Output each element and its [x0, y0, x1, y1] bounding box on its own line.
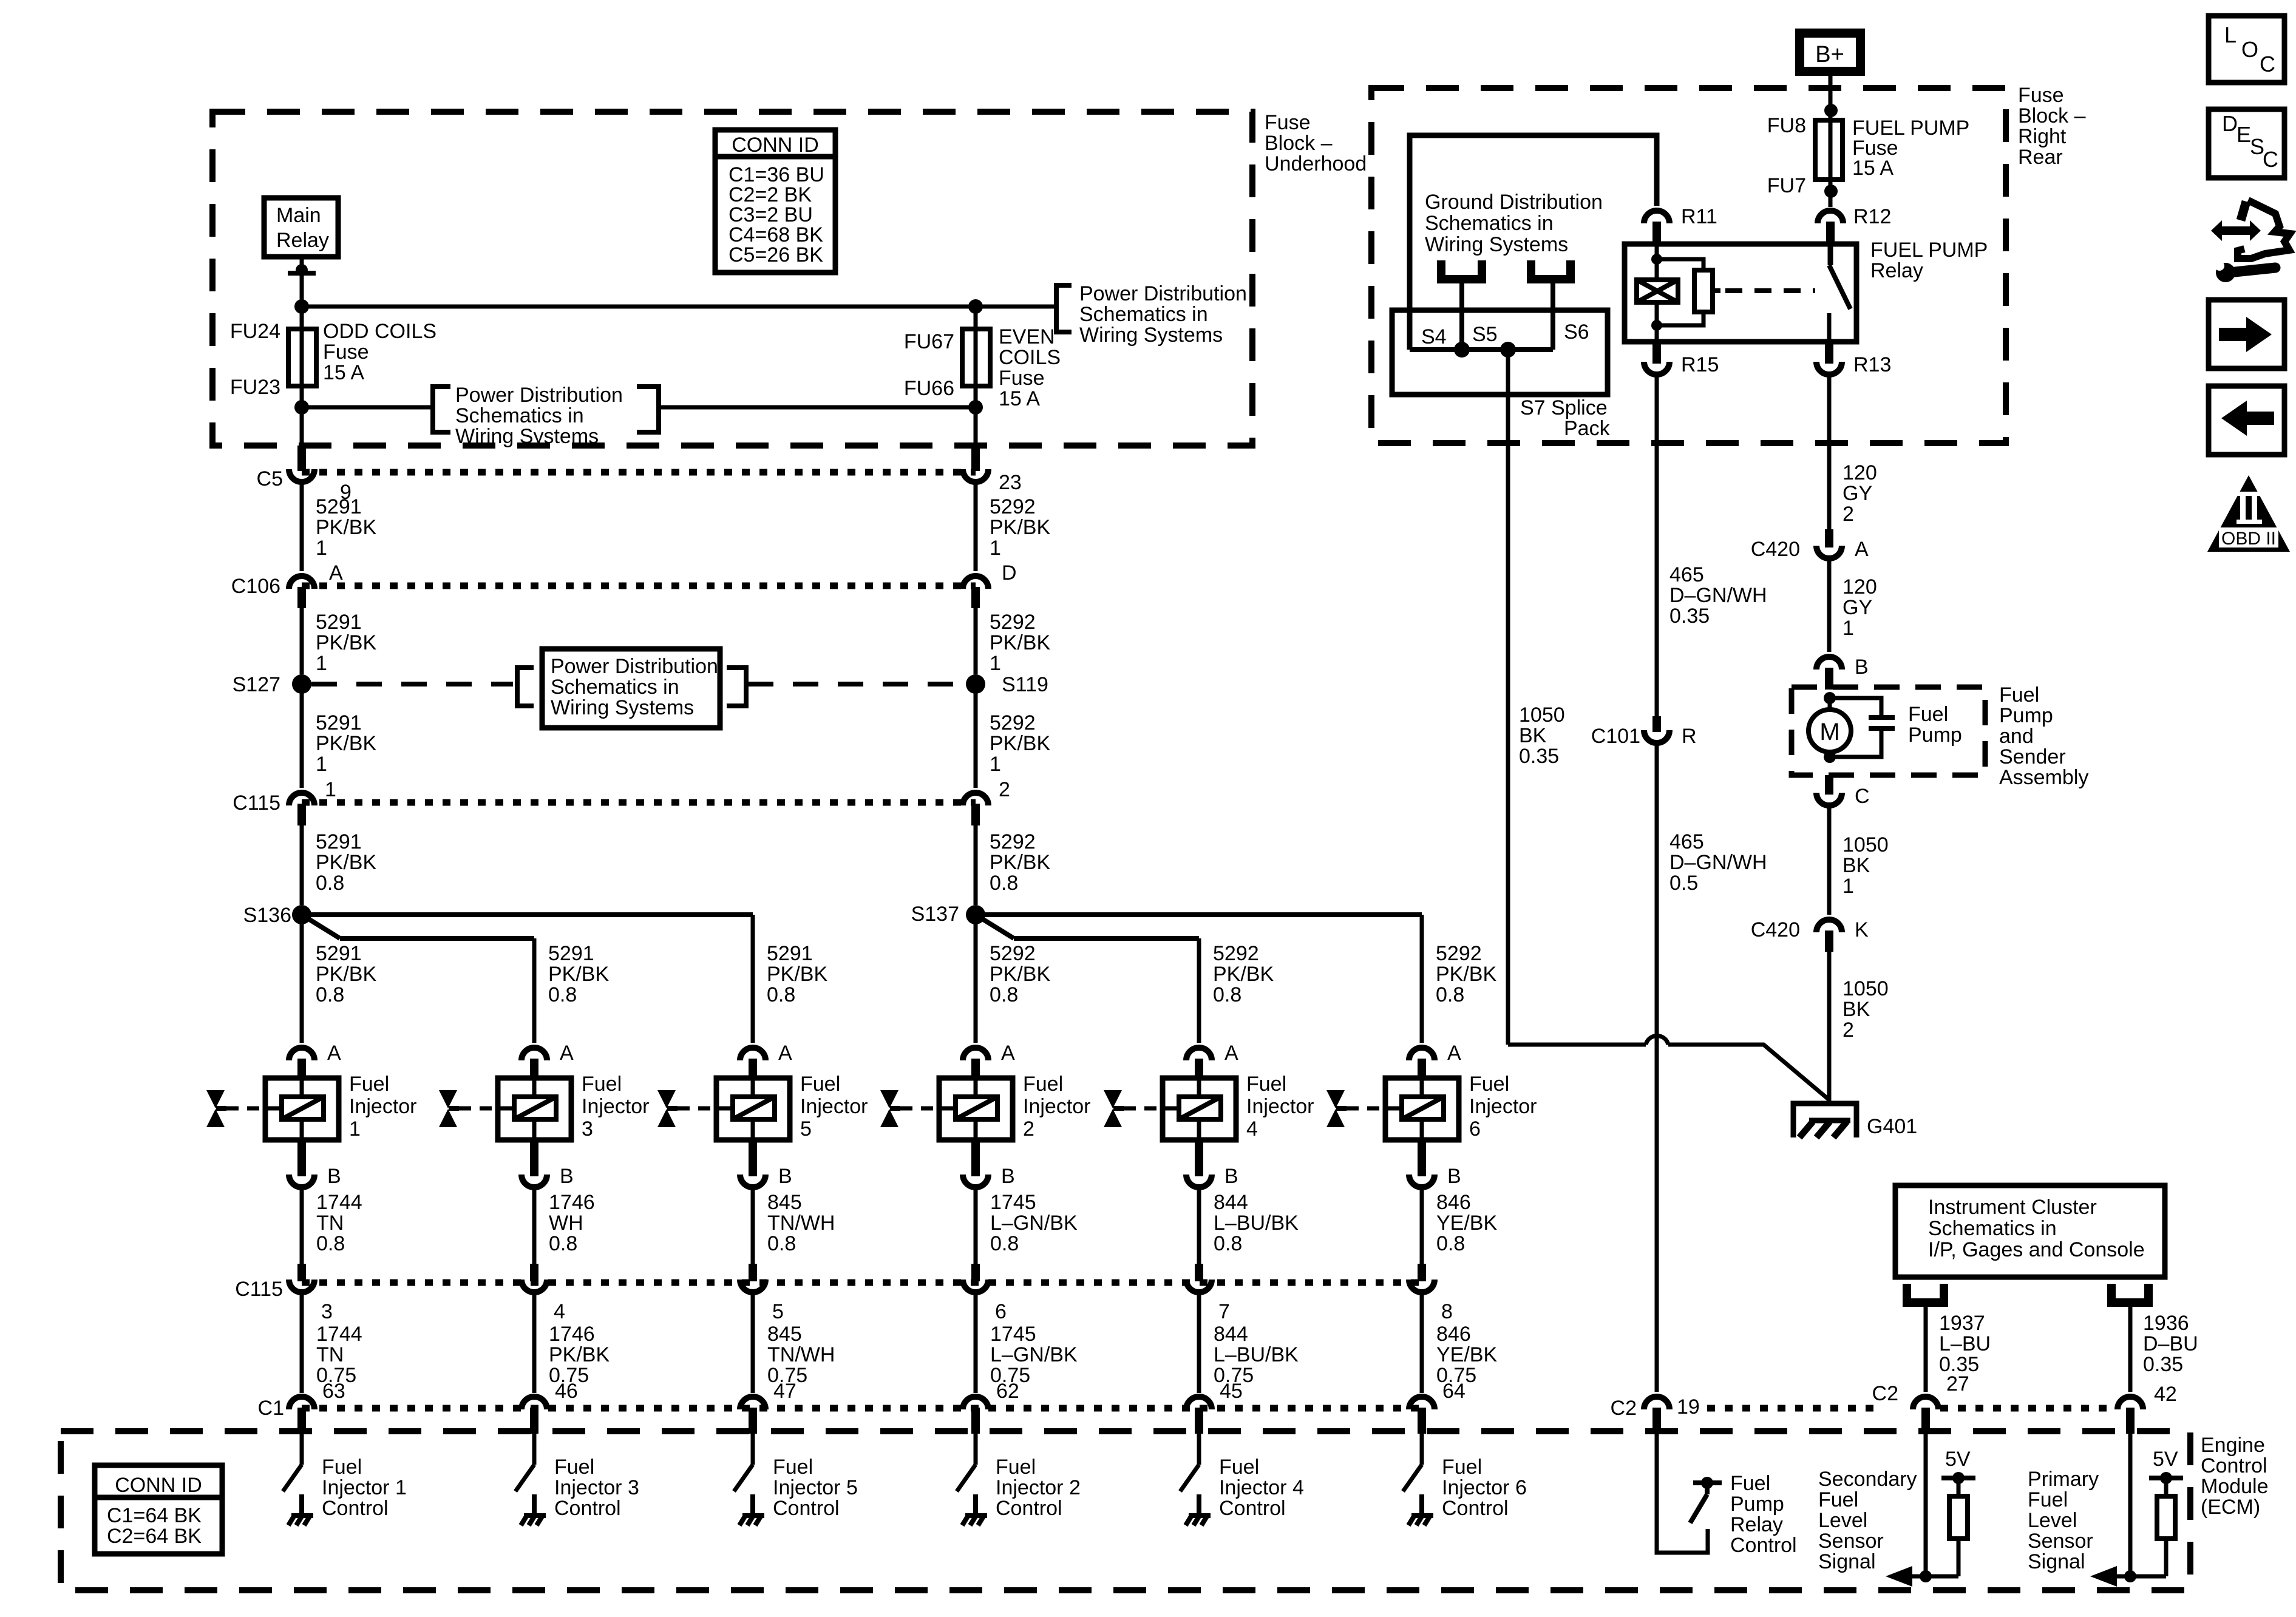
ground distribution box: [1410, 135, 1657, 350]
svg-text:62: 62: [996, 1380, 1019, 1403]
svg-text:3: 3: [321, 1300, 333, 1323]
fuse block right rear (dashed box): [1371, 88, 2006, 443]
dashed wire callout to S119: [748, 682, 966, 686]
svg-text:FU67: FU67: [904, 330, 954, 353]
connector C115 pin 7: [1195, 1264, 1203, 1281]
connector C115 pin 2: [963, 793, 988, 805]
svg-text:R12: R12: [1853, 205, 1891, 228]
svg-text:L: L: [2224, 22, 2237, 47]
svg-text:K: K: [1855, 918, 1869, 941]
svg-text:CONN ID: CONN ID: [732, 134, 819, 157]
pull-up resistor (secondary): [1949, 1496, 1968, 1539]
connector C1 pin 63: [289, 1397, 314, 1409]
splice S127: [292, 674, 311, 694]
svg-text:C1=64 BKC2=64 BK: C1=64 BKC2=64 BK: [107, 1504, 202, 1548]
callout bracket left (S127): [517, 668, 534, 706]
svg-text:S127: S127: [233, 673, 280, 696]
svg-text:C420: C420: [1751, 538, 1800, 561]
connector C420 pin K: [1816, 920, 1842, 932]
svg-text:63: 63: [322, 1380, 345, 1403]
svg-text:C5: C5: [257, 467, 283, 490]
wire R13 down (120 GY 2): [1827, 372, 1832, 529]
svg-text:C1: C1: [258, 1397, 284, 1420]
connector C2 row dotted line (19 to 27): [1707, 1405, 1873, 1412]
primary fuel level sensor signal wire: [2128, 1434, 2133, 1576]
svg-text:B: B: [1001, 1165, 1015, 1188]
wire label 5291 PK/BK 1 (C106 to S127): [300, 608, 304, 674]
connector C115 pin 4: [530, 1264, 538, 1281]
svg-text:B: B: [1855, 656, 1869, 679]
svg-text:S4: S4: [1421, 325, 1447, 348]
valve symbol injector 1: [206, 1090, 225, 1108]
connector C1 row dotted line: [302, 1405, 1422, 1412]
relay actuator dashed line: [1725, 288, 1815, 293]
wire label 844 L–BU/BK 0.8 (injector 4 to C115): [1197, 1185, 1201, 1264]
svg-text:FU7: FU7: [1767, 174, 1806, 197]
node S7 junction: [1500, 342, 1516, 358]
svg-text:S119: S119: [1002, 673, 1048, 696]
svg-text:C2: C2: [1872, 1382, 1898, 1405]
ECM driver switch fuel injector 2 control: [974, 1434, 978, 1465]
svg-text:B: B: [1224, 1165, 1238, 1188]
instrument cluster bracket (1936): [2111, 1284, 2148, 1303]
fuel pump motor M: [1824, 692, 1836, 704]
wire label 846 YE/BK 0.75 (C115 to ECM pin 64): [1420, 1290, 1424, 1393]
connector R13: [1825, 342, 1833, 364]
svg-text:FU23: FU23: [230, 376, 280, 399]
splice S136: [292, 905, 311, 924]
svg-text:5V: 5V: [1945, 1448, 1971, 1471]
ECM driver switch fuel injector 6 control: [1420, 1434, 1424, 1465]
wire FU23 junction down to C5: [300, 407, 304, 446]
svg-text:R11: R11: [1681, 205, 1717, 228]
connector C101 pin R: [1652, 716, 1661, 732]
pull-up resistor (primary): [2157, 1496, 2175, 1539]
svg-text:FU24: FU24: [230, 320, 280, 343]
wire label 1745 L–GN/BK 0.8 (injector 2 to C115): [974, 1185, 978, 1264]
connector R11: [1644, 211, 1669, 223]
connector C2 row dotted line (27 to 42): [1940, 1405, 2116, 1412]
svg-text:23: 23: [999, 471, 1022, 494]
valve symbol injector 3: [439, 1090, 457, 1108]
svg-text:A: A: [327, 1042, 341, 1065]
fuse FU24/FU23 ODD COILS: [300, 307, 304, 329]
connector injector 4 pin B: [1195, 1140, 1203, 1176]
callout bracket left (mid): [433, 387, 450, 432]
svg-text:1: 1: [325, 778, 336, 801]
connector C420 pin A: [1825, 529, 1833, 547]
svg-text:E: E: [2237, 122, 2251, 147]
signal arrow (secondary): [1911, 1575, 1958, 1579]
connector C2 pin 19: [1644, 1397, 1669, 1409]
engine control module (dashed box): [61, 1431, 2190, 1590]
icon LOC box: [2209, 16, 2284, 83]
valve symbol injector 4: [1104, 1090, 1122, 1108]
ground (ECM internal, injector 3): [532, 1494, 537, 1516]
svg-text:B: B: [778, 1165, 792, 1188]
svg-text:R15: R15: [1681, 353, 1719, 376]
splice pack box S4/S5/S6: [1392, 310, 1608, 395]
svg-text:C115: C115: [233, 792, 280, 815]
main relay box: [264, 198, 338, 257]
connector C2 pin 42: [2118, 1397, 2143, 1409]
CONN ID table (ECM): [95, 1465, 222, 1554]
node junction bus to FU24: [294, 299, 309, 314]
connector R15: [1652, 342, 1661, 364]
svg-text:S6: S6: [1564, 320, 1589, 344]
connector C106 row dotted line: [302, 583, 976, 589]
fuel injector 3: [498, 1078, 571, 1140]
svg-text:2: 2: [999, 778, 1010, 801]
svg-text:C101: C101: [1591, 725, 1640, 748]
connector injector 3 pin A: [521, 1048, 547, 1060]
svg-text:27: 27: [1946, 1372, 1969, 1395]
wire S136 down to injector 1: [300, 915, 304, 1043]
svg-text:FU8: FU8: [1767, 114, 1806, 137]
connector C1 pin 46: [521, 1397, 547, 1409]
wire label 5291 PK/BK 1 (C5 to C106): [300, 480, 304, 571]
instrument cluster bracket (1937): [1907, 1284, 1944, 1303]
connector injector 5 pin A: [740, 1048, 766, 1060]
wire label 1745 L–GN/BK 0.75 (C115 to ECM pin 62): [974, 1290, 978, 1393]
ground G401: [1793, 1103, 1856, 1137]
connector R12: [1818, 211, 1843, 223]
wire label 5292 PK/BK 1 (23 to D): [974, 480, 978, 571]
callout bracket power distribution (top): [1056, 285, 1072, 332]
ECM driver switch fuel injector 3 control: [532, 1434, 537, 1465]
svg-text:Pack: Pack: [1564, 417, 1611, 440]
connector C115 pin 3: [297, 1264, 306, 1281]
valve symbol injector 5: [657, 1090, 676, 1108]
ground (ECM internal, injector 6): [1419, 1494, 1424, 1516]
wire label 1937 L-BU 0.35: [1924, 1303, 1928, 1392]
svg-text:45: 45: [1220, 1380, 1243, 1403]
svg-text:C: C: [1855, 785, 1870, 808]
wire S7 splice to G401 (1050 BK 0.35): [1506, 350, 1510, 1045]
ground distribution bracket S6: [1531, 260, 1571, 279]
connector C115 pin 6: [971, 1264, 980, 1281]
wire FU23 to callout: [294, 400, 309, 415]
svg-text:19: 19: [1677, 1395, 1700, 1419]
fuel injector 5: [716, 1078, 790, 1140]
wire label 465 D-GN/WH 0.5 (C101 to ECM 19): [1655, 741, 1659, 1392]
fuel injector 2: [939, 1078, 1013, 1140]
wire label 5292 PK/BK 1 (D to S119): [974, 608, 978, 674]
relay resistor: [1662, 259, 1703, 270]
connector injector 4 pin A: [1186, 1048, 1212, 1060]
wire label 5291 PK/BK 1 (S127 to C115): [300, 684, 304, 788]
fuel injector 1: [265, 1078, 339, 1140]
fuse FU8/FU7 FUEL PUMP: [1815, 120, 1843, 180]
svg-text:A: A: [1224, 1042, 1238, 1065]
svg-text:C2: C2: [1611, 1397, 1637, 1420]
splice pack rail: [1410, 347, 1553, 352]
svg-text:5V: 5V: [2153, 1448, 2178, 1471]
fuel injector 4: [1163, 1078, 1236, 1140]
svg-text:D: D: [2222, 111, 2238, 136]
connector injector 6 pin A: [1409, 1048, 1435, 1060]
connector C115 row dotted line: [302, 799, 976, 806]
connector injector 6 pin B: [1418, 1140, 1426, 1176]
ECM switch fuel pump relay control: [1657, 1434, 1708, 1553]
svg-text:A: A: [778, 1042, 792, 1065]
svg-text:C420: C420: [1751, 918, 1800, 941]
fuel injector 6: [1385, 1078, 1459, 1140]
CONN ID table (underhood): [715, 130, 835, 273]
connector injector 3 pin B: [530, 1140, 538, 1176]
wire bus main relay to FU67: [302, 305, 1056, 309]
fuel pump relay box: [1625, 244, 1856, 342]
svg-text:7: 7: [1218, 1300, 1230, 1323]
wire label 1744 TN 0.8 (injector 1 to C115): [300, 1185, 304, 1264]
wire main relay output: [300, 257, 304, 303]
svg-text:CONN ID: CONN ID: [115, 1474, 202, 1497]
wire B+ down to FU8: [1829, 76, 1833, 120]
connector injector 2 pin B: [971, 1140, 980, 1176]
fuel pump and sender assembly (dashed box): [1792, 687, 1985, 775]
icon forward arrow box: [2209, 300, 2284, 368]
node junction bus to FU67: [968, 299, 983, 314]
connector injector 2 pin A: [963, 1048, 988, 1060]
ground (ECM internal, injector 2): [973, 1494, 978, 1516]
signal arrow (primary): [2116, 1575, 2166, 1579]
fuel pump capacitor: [1869, 715, 1895, 720]
svg-text:42: 42: [2154, 1383, 2177, 1406]
wire label 844 L–BU/BK 0.75 (C115 to ECM pin 45): [1197, 1290, 1201, 1393]
connector C1 pin 64: [1409, 1397, 1435, 1409]
svg-text:C: C: [2260, 52, 2275, 76]
wire S137 branch to injector 6: [976, 912, 1422, 917]
wire S136 branch to injector 3: [302, 915, 340, 938]
svg-text:G401: G401: [1867, 1115, 1917, 1138]
callout box Power Distribution Schematics in Wiring Systems: [542, 649, 720, 728]
wire label 1050 BK 1 (C to C420 K): [1827, 803, 1832, 915]
ground (ECM internal, injector 1): [299, 1494, 304, 1516]
connector C1 pin 45: [1186, 1397, 1212, 1409]
icon two-way arrow with wrench: [2211, 220, 2261, 241]
svg-text:D: D: [1002, 561, 1017, 585]
node main relay terminal: [296, 264, 308, 276]
icon back arrow box: [2209, 386, 2284, 455]
node S5 junction: [1454, 342, 1470, 358]
ground (ECM internal, injector 5): [750, 1494, 755, 1516]
svg-text:B: B: [1447, 1165, 1461, 1188]
relay coil: [1655, 244, 1659, 280]
connector C106 pin D: [963, 576, 988, 589]
svg-text:C106: C106: [231, 575, 280, 598]
svg-text:C: C: [2263, 147, 2278, 172]
svg-text:8: 8: [1441, 1300, 1453, 1323]
wire S137 branch to injector 4: [976, 915, 1014, 938]
ECM driver switch fuel injector 5 control: [751, 1434, 755, 1465]
relay switch: [1828, 245, 1833, 265]
ground distribution bracket S5: [1441, 260, 1482, 279]
svg-text:A: A: [560, 1042, 574, 1065]
wire label 5292 PK/BK 1 (S119 to 2): [974, 684, 978, 788]
callout bracket right (S119): [727, 668, 746, 706]
wire label 845 TN/WH 0.8 (injector 5 to C115): [751, 1185, 755, 1264]
wire label 1050 BK 2 (C420 K to G401): [1827, 952, 1832, 1103]
callout bracket right (mid): [637, 387, 659, 432]
splice S119: [966, 674, 985, 694]
fuse block underhood (dashed box): [212, 112, 1252, 446]
valve symbol injector 2: [880, 1090, 898, 1108]
svg-text:A: A: [329, 561, 343, 585]
node B+ junction: [1824, 104, 1838, 117]
ECM driver switch fuel injector 4 control: [1197, 1434, 1201, 1465]
svg-text:6: 6: [995, 1300, 1007, 1323]
fuse FU67/FU66 EVEN COILS: [974, 307, 978, 329]
connector C115 pin 5: [749, 1264, 757, 1281]
splice S137: [966, 905, 985, 924]
svg-text:A: A: [1855, 538, 1869, 561]
connector C106 pin A: [289, 576, 314, 589]
svg-text:OBD II: OBD II: [2221, 529, 2276, 549]
connector injector 1 pin A: [289, 1048, 314, 1060]
svg-text:64: 64: [1442, 1380, 1466, 1403]
connector C2 pin 27: [1913, 1397, 1938, 1409]
svg-text:B: B: [327, 1165, 341, 1188]
wire label 5292 PK/BK 0.8 (2 to S137): [974, 825, 978, 905]
wire label 5291 PK/BK 0.8 (C115 to S136): [300, 825, 304, 905]
connector C5 row dotted line: [302, 469, 976, 476]
icon OBD II triangle: [2207, 475, 2290, 552]
svg-text:R13: R13: [1853, 353, 1891, 376]
connector C5 pin 9: [297, 446, 306, 471]
svg-text:C115: C115: [235, 1278, 283, 1301]
connector fuel pump pin B: [1816, 657, 1842, 670]
svg-text:EngineControlModule(ECM): EngineControlModule(ECM): [2201, 1434, 2269, 1519]
ground (ECM internal, injector 4): [1197, 1494, 1201, 1516]
svg-text:M: M: [1819, 719, 1839, 745]
connector C5 pin 23: [971, 446, 980, 471]
connector injector 1 pin B: [297, 1140, 306, 1176]
wire S136 branch to injector 5: [302, 912, 753, 917]
wire S137 down to injector 2: [974, 915, 978, 1043]
svg-text:S136: S136: [243, 904, 291, 927]
wire hop over C101 wire: [1646, 1036, 1668, 1045]
wire label 1936 D-BU 0.35: [2128, 1303, 2133, 1392]
dashed wire S127 to callout: [311, 682, 513, 686]
svg-text:4: 4: [554, 1300, 565, 1323]
connector injector 5 pin B: [749, 1140, 757, 1176]
valve symbol injector 6: [1326, 1090, 1345, 1108]
svg-text:O: O: [2241, 37, 2258, 62]
connector C115 pin 8: [1418, 1264, 1426, 1281]
svg-text:A: A: [1447, 1042, 1461, 1065]
connector fuel pump pin C: [1825, 775, 1833, 795]
svg-text:B: B: [560, 1165, 574, 1188]
svg-text:S7 Splice: S7 Splice: [1520, 396, 1608, 419]
svg-text:R: R: [1682, 725, 1697, 748]
connector C1 pin 62: [963, 1397, 988, 1409]
wire FU7 to R12: [1829, 180, 1833, 207]
wire callout to FU66 junction: [660, 405, 976, 410]
svg-text:S5: S5: [1472, 323, 1498, 346]
svg-text:5: 5: [772, 1300, 784, 1323]
wire label 1744 TN 0.75 (C115 to ECM pin 63): [300, 1290, 304, 1393]
svg-text:S137: S137: [911, 903, 959, 926]
connector C115 pin 1: [289, 793, 314, 805]
wire label 846 YE/BK 0.8 (injector 6 to C115): [1420, 1185, 1424, 1264]
svg-text:B+: B+: [1815, 42, 1844, 67]
battery feed B+: [1795, 29, 1865, 76]
wire label 845 TN/WH 0.75 (C115 to ECM pin 47): [751, 1290, 755, 1393]
svg-text:47: 47: [773, 1380, 796, 1403]
wire label 1746 WH 0.8 (injector 3 to C115): [532, 1185, 537, 1264]
wire R15 down (465 D-GN/WH 0.35): [1655, 372, 1659, 716]
wire label 1746 PK/BK 0.75 (C115 to ECM pin 46): [532, 1290, 537, 1393]
svg-text:FU66: FU66: [904, 377, 954, 400]
svg-text:A: A: [1001, 1042, 1015, 1065]
secondary fuel level sensor signal wire: [1924, 1434, 1928, 1576]
wire label 120 GY 1 (C420 to fuel pump B): [1827, 556, 1832, 652]
ECM driver switch fuel injector 1 control: [300, 1434, 304, 1465]
svg-text:C1=36 BUC2=2 BKC3=2 BUC4=68 BK: C1=36 BUC2=2 BKC3=2 BUC4=68 BKC5=26 BK: [729, 163, 824, 266]
connector C1 pin 47: [740, 1397, 766, 1409]
icon DESC box: [2209, 109, 2284, 178]
instrument cluster box: [1895, 1185, 2165, 1277]
svg-text:46: 46: [555, 1380, 578, 1403]
connector C115 pins dotted line: [302, 1280, 1422, 1286]
